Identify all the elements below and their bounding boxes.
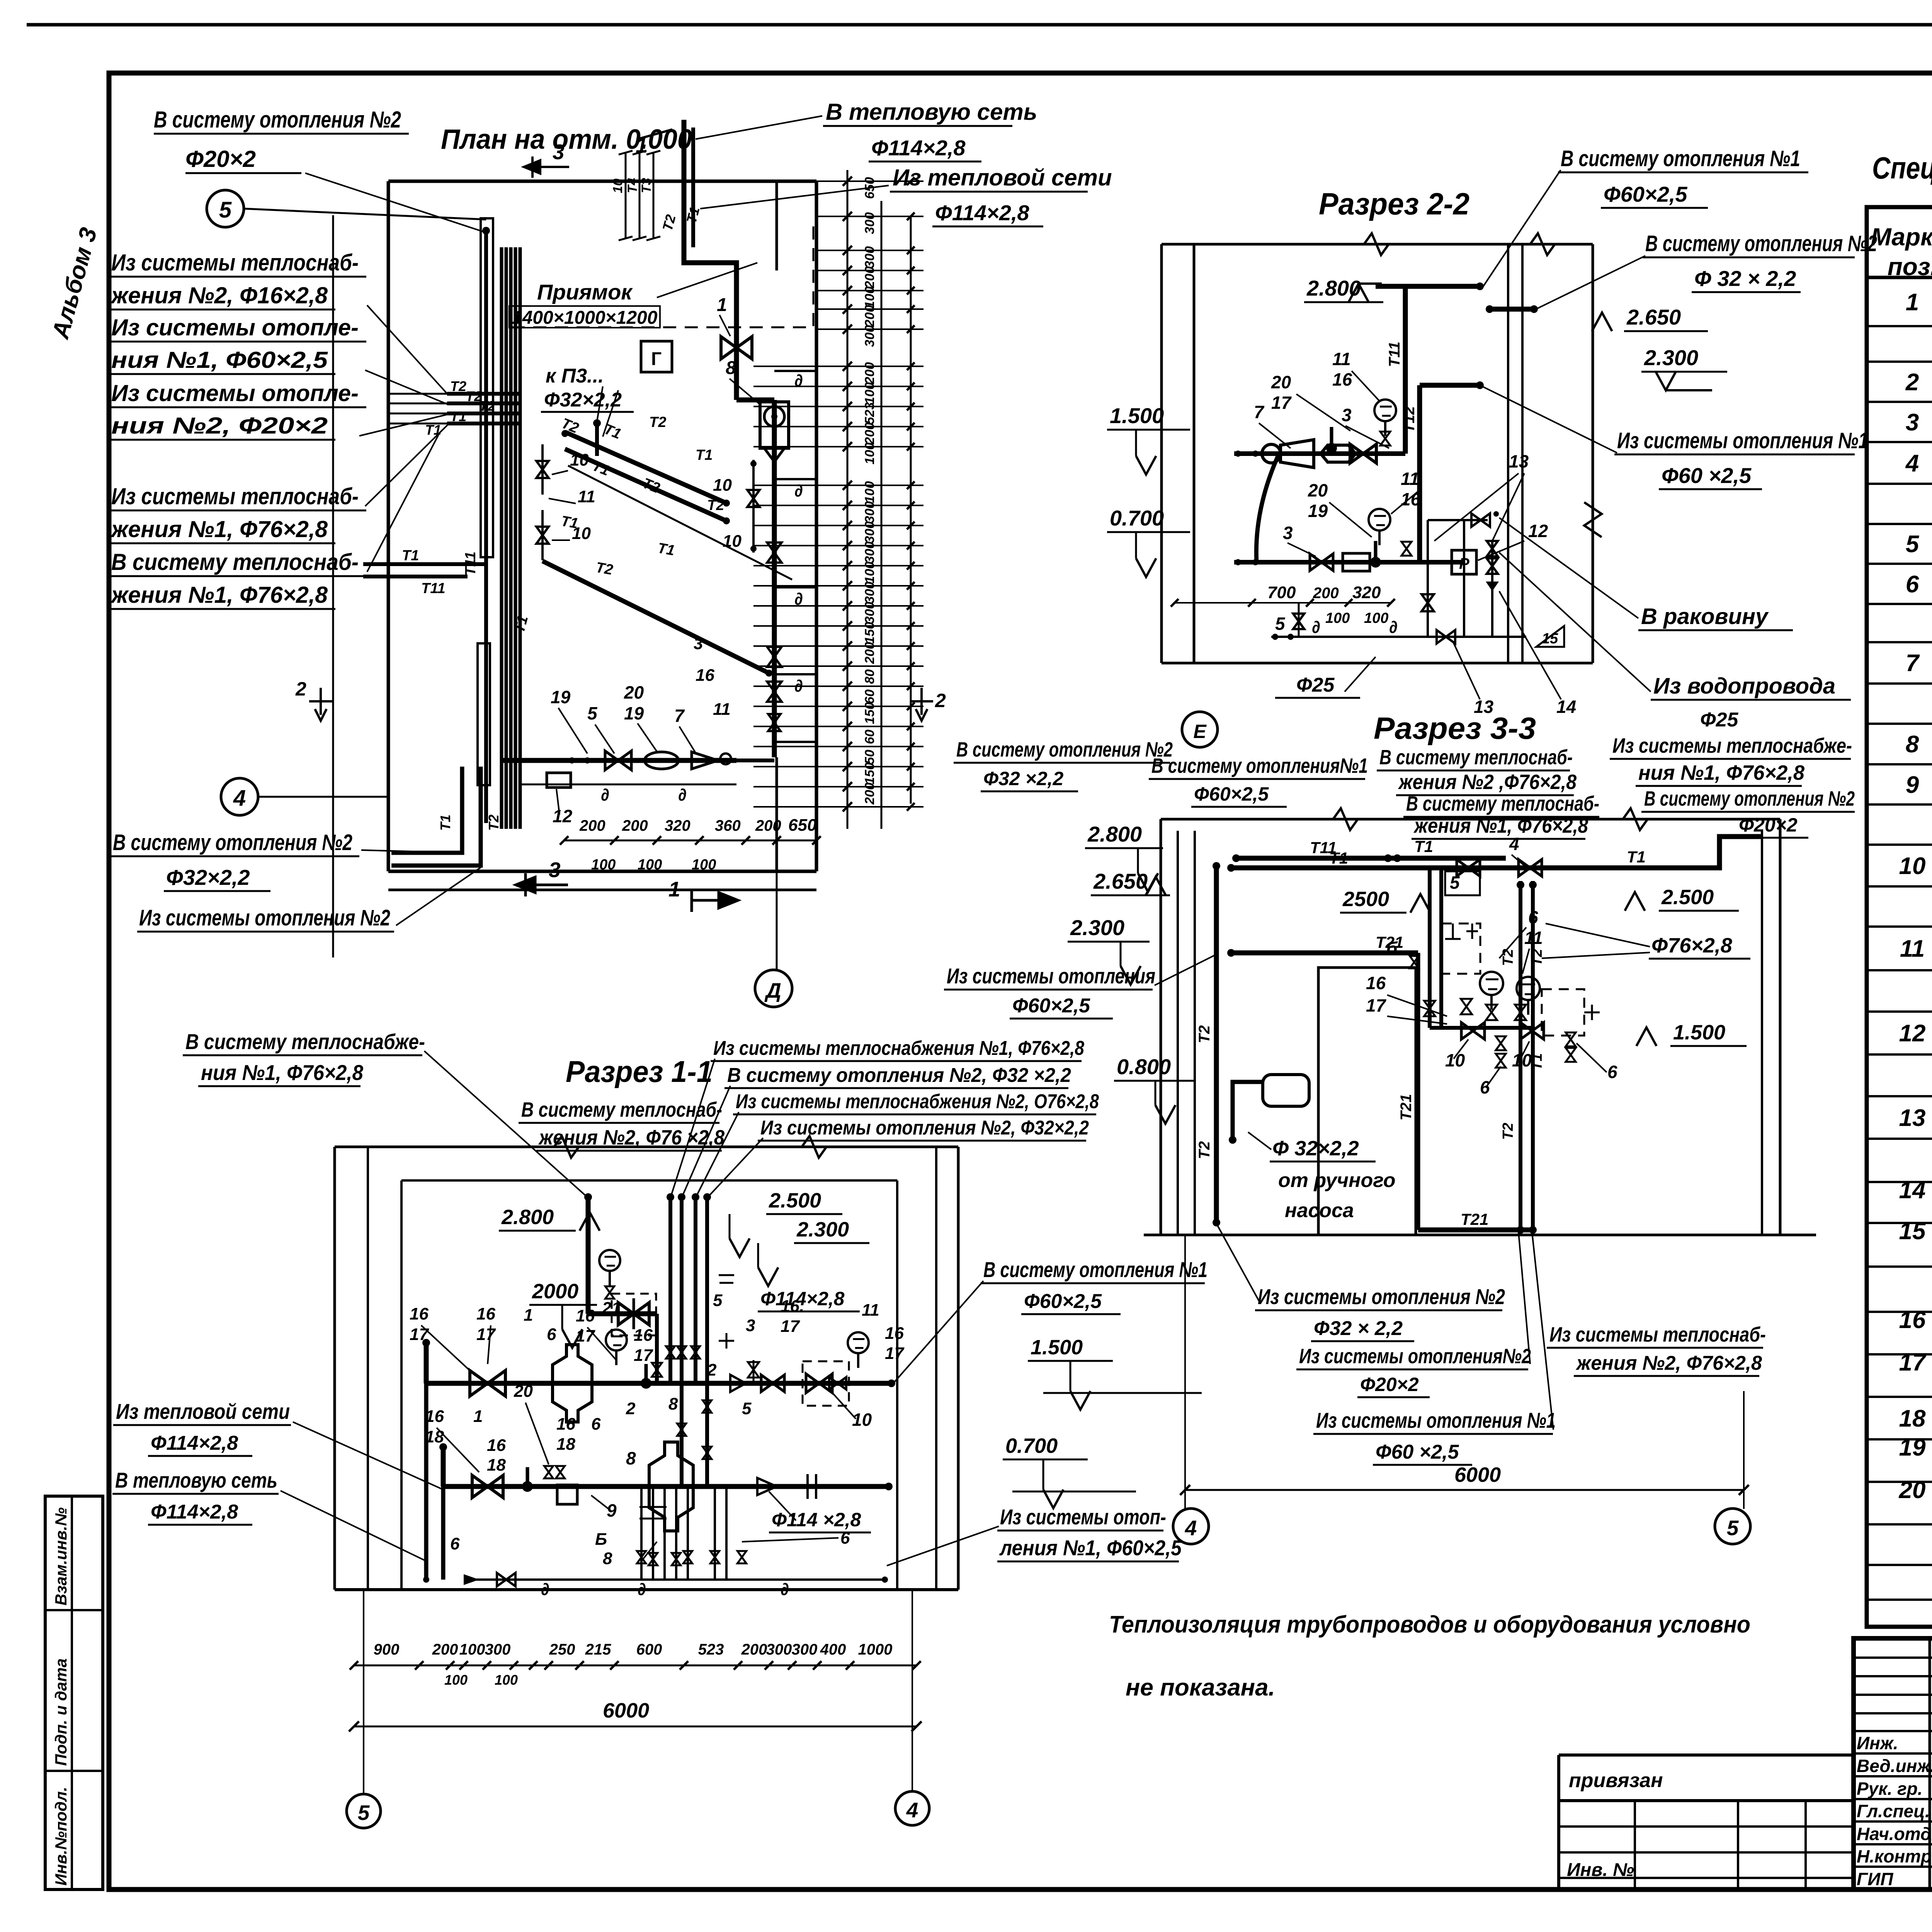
svg-text:Т2: Т2 xyxy=(1529,949,1545,966)
svg-text:18: 18 xyxy=(425,1427,444,1446)
svg-text:Ф60×2,5: Ф60×2,5 xyxy=(1012,995,1090,1017)
svg-text:Т2: Т2 xyxy=(1196,1025,1213,1043)
svg-text:17: 17 xyxy=(885,1344,905,1363)
svg-text:6: 6 xyxy=(547,1325,556,1344)
dimension column (plan) xyxy=(847,170,849,829)
svg-text:2500: 2500 xyxy=(1342,888,1389,911)
valve pos5 (2-2) xyxy=(1298,603,1300,637)
svg-text:300: 300 xyxy=(862,325,877,347)
svg-text:поз.: поз. xyxy=(1888,253,1932,281)
svg-text:Ф 32×2,2: Ф 32×2,2 xyxy=(1272,1137,1359,1160)
svg-text:В систему отопления №2: В систему отопления №2 xyxy=(1645,231,1877,256)
svg-text:Т2: Т2 xyxy=(1500,949,1516,966)
svg-text:320: 320 xyxy=(665,817,690,834)
svg-text:∂: ∂ xyxy=(794,371,803,390)
svg-text:Т2: Т2 xyxy=(707,497,724,514)
svg-text:2.650: 2.650 xyxy=(1093,869,1148,893)
main pipe upper (1-1) xyxy=(426,1381,891,1386)
svg-text:8: 8 xyxy=(626,1448,636,1468)
svg-text:16: 16 xyxy=(487,1436,506,1455)
svg-text:5: 5 xyxy=(742,1399,752,1418)
svg-text:17: 17 xyxy=(781,1317,800,1336)
leader lines from labels to pipes xyxy=(305,173,484,232)
svg-text:80: 80 xyxy=(862,669,877,684)
grid circles 4 5 (3-3) xyxy=(1173,1509,1209,1544)
svg-text:План на отм. 0.000: План на отм. 0.000 xyxy=(441,124,692,155)
top risers to heat network xyxy=(684,120,736,277)
svg-text:300: 300 xyxy=(485,1641,511,1658)
mud trap pos 8 lower (1-1) xyxy=(649,1442,693,1531)
svg-text:В систему теплоснаб-: В систему теплоснаб- xyxy=(1406,792,1599,815)
svg-text:Из системы отопле-: Из системы отопле- xyxy=(111,380,359,406)
svg-text:1000: 1000 xyxy=(858,1641,893,1658)
section mark 3 top xyxy=(524,156,569,178)
dashed regulator box (1-1) xyxy=(803,1361,849,1406)
svg-text:Ф32 × 2,2: Ф32 × 2,2 xyxy=(1314,1317,1403,1340)
svg-text:250: 250 xyxy=(549,1641,575,1658)
svg-text:10: 10 xyxy=(570,451,589,469)
svg-text:2.500: 2.500 xyxy=(1661,886,1714,909)
svg-text:ния №2, Ф20×2: ния №2, Ф20×2 xyxy=(111,413,328,439)
svg-text:Ф25: Ф25 xyxy=(1296,674,1335,696)
svg-text:13: 13 xyxy=(1509,451,1529,471)
svg-text:10: 10 xyxy=(572,524,591,543)
svg-text:3: 3 xyxy=(746,1316,755,1335)
svg-text:Из системы отопления №2: Из системы отопления №2 xyxy=(1258,1284,1505,1309)
svg-text:Ф114×2,8: Ф114×2,8 xyxy=(760,1288,845,1310)
svg-text:Теплоизоляция трубопроводов: Теплоизоляция трубопроводов и оборудован… xyxy=(1109,1611,1750,1638)
svg-text:200: 200 xyxy=(755,817,781,834)
svg-text:2.800: 2.800 xyxy=(501,1206,554,1229)
svg-text:Т1: Т1 xyxy=(656,540,676,559)
svg-text:Т11: Т11 xyxy=(421,580,446,597)
branch valves at riser bundle (plan) xyxy=(541,444,544,495)
svg-text:Ф20×2: Ф20×2 xyxy=(1739,814,1798,836)
risers from top (1-1) xyxy=(586,1197,591,1314)
svg-text:насоса: насоса xyxy=(1285,1199,1354,1222)
grid circle D xyxy=(755,970,792,1007)
svg-text:300: 300 xyxy=(862,246,877,268)
svg-text:Из тепловой сети: Из тепловой сети xyxy=(893,165,1112,190)
pos 15 slope mark (2-2) xyxy=(1536,626,1564,647)
svg-text:523: 523 xyxy=(698,1641,724,1658)
svg-text:5: 5 xyxy=(219,197,232,223)
svg-text:Ф32×2,2: Ф32×2,2 xyxy=(544,389,622,411)
svg-text:5: 5 xyxy=(1275,614,1286,634)
svg-text:16: 16 xyxy=(1332,369,1352,389)
pipe stubs with d-marks xyxy=(774,370,815,372)
svg-text:Т21: Т21 xyxy=(1461,1210,1488,1228)
svg-text:Ф60 ×2,5: Ф60 ×2,5 xyxy=(1662,463,1752,488)
svg-text:2.300: 2.300 xyxy=(1070,915,1124,940)
svg-text:Т11: Т11 xyxy=(1386,342,1403,367)
svg-text:ния №1, Ф76×2,8: ния №1, Ф76×2,8 xyxy=(1638,761,1804,784)
riser valves (1-1) xyxy=(666,1346,675,1359)
svg-text:523: 523 xyxy=(862,402,877,424)
grid circles 5 4 (1-1) xyxy=(347,1794,381,1828)
grid line 5 (plan) xyxy=(332,215,334,957)
svg-text:5: 5 xyxy=(1450,872,1460,893)
curved pipe elevator drain (2-2) xyxy=(1256,454,1279,562)
flange pair risers (1-1) xyxy=(719,1333,734,1349)
svg-text:300: 300 xyxy=(862,541,877,563)
svg-text:В систему отопления №2: В систему отопления №2 xyxy=(113,830,352,855)
lower assembly (2-2) xyxy=(1234,560,1464,565)
svg-text:19: 19 xyxy=(1308,501,1328,521)
svg-text:17: 17 xyxy=(410,1325,429,1344)
circle E (2-2) xyxy=(1182,712,1218,747)
svg-text:4: 4 xyxy=(1905,450,1919,477)
svg-text:Г: Г xyxy=(651,349,662,369)
svg-text:жения №1, Ф76×2,8: жения №1, Ф76×2,8 xyxy=(110,582,328,608)
svg-text:2.300: 2.300 xyxy=(1644,345,1698,370)
svg-text:Марка,: Марка, xyxy=(1871,223,1932,251)
svg-text:11: 11 xyxy=(1900,935,1925,962)
svg-text:20: 20 xyxy=(1899,1477,1926,1503)
svg-text:ГИП: ГИП xyxy=(1857,1869,1893,1889)
svg-text:16: 16 xyxy=(1366,973,1386,993)
svg-text:9: 9 xyxy=(607,1500,617,1520)
mud trap pos8 (plan) xyxy=(760,402,789,448)
svg-text:жения №2 ,Ф76×2,8: жения №2 ,Ф76×2,8 xyxy=(1398,770,1577,794)
svg-text:Из системы теплоснабже-: Из системы теплоснабже- xyxy=(1612,734,1852,757)
svg-text:Из системы теплоснабжения №1,: Из системы теплоснабжения №1, Ф76×2,8 xyxy=(713,1037,1084,1060)
svg-text:8: 8 xyxy=(668,1395,678,1413)
pipe T11 (3-3) xyxy=(1236,856,1506,861)
svg-text:Рук. гр.: Рук. гр. xyxy=(1857,1779,1923,1799)
horizontal pipes to wall (plan) xyxy=(363,562,486,566)
svg-text:Из системы отопления: Из системы отопления xyxy=(947,964,1155,988)
svg-text:19: 19 xyxy=(551,687,571,707)
svg-text:200: 200 xyxy=(862,266,877,289)
svg-text:Ф60×2,5: Ф60×2,5 xyxy=(1604,182,1687,206)
svg-text:Т2: Т2 xyxy=(479,398,495,414)
gauges (3-3) xyxy=(1480,972,1503,995)
svg-text:16: 16 xyxy=(634,1326,653,1345)
pos 12 pump (plan) xyxy=(547,773,571,787)
valve pos 1 upper (1-1) xyxy=(470,1371,505,1396)
svg-text:2: 2 xyxy=(295,678,306,700)
svg-text:3: 3 xyxy=(553,140,565,164)
spec table frame xyxy=(1867,207,1932,1627)
bottom pipes exit (plan) xyxy=(391,767,462,853)
riser bundle (plan) xyxy=(500,247,503,829)
svg-text:от ручного: от ручного xyxy=(1278,1169,1396,1192)
svg-text:Ф114×2,8: Ф114×2,8 xyxy=(935,201,1029,225)
svg-text:7: 7 xyxy=(1906,650,1920,677)
svg-text:6000: 6000 xyxy=(1454,1463,1501,1486)
svg-text:Из системы отопления №1: Из системы отопления №1 xyxy=(1617,428,1868,453)
svg-text:Ф32 ×2,2: Ф32 ×2,2 xyxy=(983,768,1063,789)
bottom pipe T21 (3-3) xyxy=(1418,1228,1533,1233)
svg-text:1: 1 xyxy=(524,1306,533,1325)
svg-text:В тепловую сеть: В тепловую сеть xyxy=(115,1468,277,1492)
svg-text:100: 100 xyxy=(638,857,662,873)
svg-text:16: 16 xyxy=(696,666,714,685)
svg-text:ния №1, Ф60×2,5: ния №1, Ф60×2,5 xyxy=(111,347,328,373)
svg-text:Н.контр.: Н.контр. xyxy=(1857,1846,1932,1866)
svg-text:Т2: Т2 xyxy=(649,414,666,430)
svg-text:∂: ∂ xyxy=(601,786,609,804)
svg-text:Ф60 ×2,5: Ф60 ×2,5 xyxy=(1376,1441,1459,1463)
svg-text:7: 7 xyxy=(674,706,685,726)
svg-text:17: 17 xyxy=(1271,393,1292,413)
svg-text:18: 18 xyxy=(1899,1405,1926,1432)
svg-text:2000: 2000 xyxy=(532,1280,578,1303)
svg-text:6: 6 xyxy=(591,1415,601,1434)
svg-text:Т1: Т1 xyxy=(402,548,419,564)
svg-text:300: 300 xyxy=(862,501,877,523)
svg-text:200: 200 xyxy=(622,817,648,834)
svg-text:Ф20×2: Ф20×2 xyxy=(1360,1374,1419,1395)
diagonal pipes (plan) xyxy=(565,432,726,503)
svg-text:Ф114×2,8: Ф114×2,8 xyxy=(151,1432,238,1454)
svg-text:0.700: 0.700 xyxy=(1110,506,1164,530)
svg-text:600: 600 xyxy=(636,1641,662,1658)
svg-text:13: 13 xyxy=(1899,1105,1926,1131)
leader lines for labels (1-1) xyxy=(421,1325,475,1376)
svg-text:Т12: Т12 xyxy=(1401,406,1418,433)
svg-text:1: 1 xyxy=(717,295,727,315)
bottom assembly (plan) xyxy=(502,758,736,763)
section 2-2 room outline xyxy=(1162,243,1593,246)
svg-text:100: 100 xyxy=(692,857,716,873)
pipe T21 (3-3) xyxy=(1231,951,1418,956)
svg-text:2: 2 xyxy=(707,1361,717,1379)
svg-text:6: 6 xyxy=(450,1534,460,1553)
svg-text:200: 200 xyxy=(579,817,605,834)
svg-text:16: 16 xyxy=(1899,1307,1926,1333)
dims 700/200/320 (2-2) xyxy=(1175,602,1391,604)
svg-text:5: 5 xyxy=(587,703,598,723)
wall columns xyxy=(481,218,493,557)
svg-text:10: 10 xyxy=(1512,1050,1532,1070)
valves on upper pipe (1-1) xyxy=(645,1364,648,1383)
svg-text:∂: ∂ xyxy=(1312,618,1320,637)
svg-text:12: 12 xyxy=(1899,1020,1926,1047)
pipe T11 (2-2) xyxy=(1376,284,1480,289)
svg-text:10: 10 xyxy=(713,476,732,495)
svg-text:10: 10 xyxy=(611,179,625,193)
svg-text:Разрез 3-3: Разрез 3-3 xyxy=(1374,711,1536,745)
svg-text:20: 20 xyxy=(514,1382,533,1401)
main pipe lower (1-1) xyxy=(443,1484,889,1489)
svg-text:Ф32×2,2: Ф32×2,2 xyxy=(166,865,250,889)
svg-text:Гл.спец.: Гл.спец. xyxy=(1857,1801,1930,1821)
svg-text:15: 15 xyxy=(1542,631,1558,647)
svg-text:привязан: привязан xyxy=(1569,1769,1663,1792)
svg-text:300: 300 xyxy=(862,602,877,624)
svg-text:4: 4 xyxy=(1185,1516,1197,1540)
svg-text:Из системы отопления№2: Из системы отопления№2 xyxy=(1299,1345,1531,1368)
hand pump (3-3) xyxy=(1263,1075,1309,1106)
svg-text:Вед.инж.: Вед.инж. xyxy=(1857,1756,1932,1776)
svg-text:ния №1, Ф76×2,8: ния №1, Ф76×2,8 xyxy=(201,1060,364,1085)
pit dashed outline xyxy=(512,218,813,327)
svg-text:100: 100 xyxy=(862,382,877,404)
svg-text:2.650: 2.650 xyxy=(1626,305,1681,329)
svg-text:360: 360 xyxy=(715,817,741,834)
svg-text:1: 1 xyxy=(668,877,680,901)
svg-text:17: 17 xyxy=(1899,1349,1927,1376)
svg-text:900: 900 xyxy=(374,1641,400,1658)
svg-text:жения №2, Ф16×2,8: жения №2, Ф16×2,8 xyxy=(110,282,328,308)
svg-text:300: 300 xyxy=(792,1641,818,1658)
svg-text:10: 10 xyxy=(1445,1050,1465,1070)
svg-text:В тепловую сеть: В тепловую сеть xyxy=(826,99,1037,125)
svg-text:100: 100 xyxy=(1325,610,1350,626)
svg-text:1400×1000×1200: 1400×1000×1200 xyxy=(512,308,658,328)
svg-text:19: 19 xyxy=(1899,1434,1926,1461)
main vertical pipe right (plan) xyxy=(734,277,739,400)
svg-text:11: 11 xyxy=(1401,469,1419,489)
svg-text:Ф76×2,8: Ф76×2,8 xyxy=(1651,934,1732,957)
svg-text:18: 18 xyxy=(487,1456,506,1475)
svg-text:60: 60 xyxy=(862,730,877,744)
svg-text:Т2: Т2 xyxy=(1196,1141,1213,1159)
section mark 1 bottom xyxy=(692,889,738,912)
svg-text:5: 5 xyxy=(358,1801,370,1825)
svg-text:В систему теплоснаб-: В систему теплоснаб- xyxy=(1379,746,1573,769)
svg-text:Подп. и дата: Подп. и дата xyxy=(52,1658,70,1766)
grid line 4 (plan) xyxy=(221,778,258,815)
svg-text:200: 200 xyxy=(862,362,877,384)
svg-text:60: 60 xyxy=(862,689,877,704)
dashed control boxes (3-3) xyxy=(1442,923,1480,974)
svg-text:21: 21 xyxy=(602,1299,621,1318)
svg-text:6: 6 xyxy=(1906,571,1919,598)
svg-text:Ф114×2,8: Ф114×2,8 xyxy=(871,136,966,160)
svg-text:Из системы теплоснабжения №2,: Из системы теплоснабжения №2, О76×2,8 xyxy=(736,1090,1099,1113)
svg-text:3: 3 xyxy=(549,858,561,882)
svg-text:Ф60×2,5: Ф60×2,5 xyxy=(1194,783,1269,805)
svg-text:11: 11 xyxy=(1524,928,1543,948)
right assembly pos12/13/14 (2-2) xyxy=(1428,519,1488,521)
svg-text:100: 100 xyxy=(1364,610,1388,626)
attachment table xyxy=(1559,1753,1854,1757)
valves cluster (3-3) xyxy=(1461,999,1472,1014)
cone + flanges lower (1-1) xyxy=(757,1478,777,1495)
svg-text:3: 3 xyxy=(1342,405,1352,425)
svg-text:320: 320 xyxy=(1352,583,1381,602)
gauge right (1-1) xyxy=(848,1332,869,1353)
svg-text:11: 11 xyxy=(578,487,595,506)
svg-text:5: 5 xyxy=(713,1291,723,1310)
svg-text:200: 200 xyxy=(741,1641,767,1658)
svg-text:12: 12 xyxy=(553,806,573,826)
svg-text:не показана.: не показана. xyxy=(1126,1674,1275,1701)
svg-text:к П3...: к П3... xyxy=(546,365,604,387)
svg-text:6000: 6000 xyxy=(603,1699,649,1722)
small valves on right pipe xyxy=(767,543,781,563)
elevator assembly (2-2) xyxy=(1234,451,1405,456)
svg-text:Разрез 1-1: Разрез 1-1 xyxy=(566,1054,713,1088)
svg-text:17: 17 xyxy=(1366,995,1387,1015)
svg-text:Из системы отопле-: Из системы отопле- xyxy=(111,315,359,340)
svg-text:В систему теплоснаб-: В систему теплоснаб- xyxy=(521,1098,722,1121)
svg-text:16: 16 xyxy=(476,1304,495,1323)
svg-text:Т4: Т4 xyxy=(625,178,640,193)
svg-text:200: 200 xyxy=(432,1641,458,1658)
svg-text:400: 400 xyxy=(820,1641,846,1658)
sheet outer top edge xyxy=(27,23,1932,27)
svg-text:∂: ∂ xyxy=(794,481,803,500)
svg-text:Нач.отд.: Нач.отд. xyxy=(1857,1824,1932,1844)
svg-text:10: 10 xyxy=(723,532,742,551)
svg-text:20: 20 xyxy=(1308,480,1328,500)
svg-text:Из системы теплоснаб-: Из системы теплоснаб- xyxy=(111,250,359,276)
svg-text:Т21: Т21 xyxy=(1398,1094,1415,1121)
svg-text:1.500: 1.500 xyxy=(1110,403,1164,428)
svg-text:650: 650 xyxy=(788,816,817,835)
svg-text:ления №1, Ф60×2,5: ления №1, Ф60×2,5 xyxy=(999,1536,1182,1560)
svg-text:Из системы теплоснаб-: Из системы теплоснаб- xyxy=(1549,1323,1766,1346)
svg-text:2: 2 xyxy=(626,1399,636,1418)
svg-text:100: 100 xyxy=(495,1672,518,1688)
svg-text:Инж.: Инж. xyxy=(1857,1733,1898,1753)
mud trap pos 8 upper (1-1) xyxy=(553,1345,592,1422)
svg-text:Спецификация оборудования и: Спецификация оборудования и арматуры узл… xyxy=(1872,151,1932,185)
svg-text:Ф25: Ф25 xyxy=(1700,709,1739,731)
svg-text:200: 200 xyxy=(862,305,877,327)
svg-text:8: 8 xyxy=(1906,731,1919,758)
svg-text:6: 6 xyxy=(1607,1062,1617,1082)
svg-text:5: 5 xyxy=(1727,1516,1739,1540)
svg-text:Приямок: Приямок xyxy=(537,280,633,304)
svg-text:8: 8 xyxy=(726,358,736,378)
svg-text:∂: ∂ xyxy=(678,786,687,804)
vertical drops to drain (1-1) xyxy=(424,1383,429,1580)
svg-text:Ф114 ×2,8: Ф114 ×2,8 xyxy=(772,1509,861,1531)
svg-text:0.800: 0.800 xyxy=(1117,1054,1171,1079)
svg-text:100: 100 xyxy=(862,481,877,503)
svg-text:16: 16 xyxy=(425,1407,444,1426)
svg-text:17: 17 xyxy=(576,1327,595,1345)
plan walls xyxy=(388,180,816,183)
gauge upper (1-1) xyxy=(606,1330,627,1350)
svg-text:3: 3 xyxy=(1283,523,1293,543)
svg-text:300: 300 xyxy=(862,521,877,543)
svg-text:16: 16 xyxy=(576,1306,595,1325)
svg-text:В систему теплоснаб-: В систему теплоснаб- xyxy=(111,549,359,575)
svg-text:В систему отопления №2: В систему отопления №2 xyxy=(956,738,1173,761)
svg-text:200: 200 xyxy=(862,782,877,805)
svg-text:14: 14 xyxy=(1556,697,1576,717)
pipe T12 (2-2) xyxy=(1420,383,1480,388)
svg-text:∂: ∂ xyxy=(781,1580,789,1599)
svg-text:1: 1 xyxy=(473,1407,483,1426)
svg-text:Из тепловой сети: Из тепловой сети xyxy=(116,1399,290,1423)
svg-text:б: б xyxy=(1386,938,1398,958)
svg-text:2: 2 xyxy=(1905,369,1919,396)
svg-text:В раковину: В раковину xyxy=(1641,604,1769,629)
svg-text:7: 7 xyxy=(1254,402,1265,422)
svg-text:Т1: Т1 xyxy=(696,447,713,463)
svg-text:300: 300 xyxy=(862,582,877,604)
pipe T1 (3-3) xyxy=(1231,866,1617,871)
svg-text:Т1: Т1 xyxy=(1414,837,1433,855)
svg-text:200: 200 xyxy=(862,642,877,664)
section mark 1 top xyxy=(638,129,672,139)
svg-text:Разрез 2-2: Разрез 2-2 xyxy=(1319,187,1469,221)
svg-text:жения №1, Ф76×2,8: жения №1, Ф76×2,8 xyxy=(110,516,328,542)
drain line (1-1) xyxy=(468,1578,885,1581)
svg-text:16: 16 xyxy=(556,1415,575,1434)
gauge upper (2-2) xyxy=(1374,400,1396,421)
svg-text:Альбом 3: Альбом 3 xyxy=(47,225,102,342)
svg-text:6: 6 xyxy=(1528,907,1538,927)
svg-text:100: 100 xyxy=(459,1641,485,1658)
